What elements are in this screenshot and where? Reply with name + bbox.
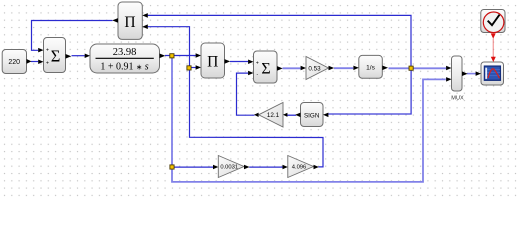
svg-text:Σ: Σ [261,60,270,77]
svg-text:+: + [46,48,49,54]
svg-text:220: 220 [8,59,20,66]
wire: sum S1 output to transfer function input [72,55,85,57]
wire: from gain 4.096 output up/left along x=189.5 to product P1 input 2 (with branch J2) [148,27,323,167]
transfer function block 23.98/(1+0.91*s) [85,44,166,73]
svg-text:Π: Π [124,14,135,31]
svg-text:+: + [256,60,259,66]
wire: feedback from junction J3 up and left to product P1 input 1 [148,15,411,68]
wire: junction J4 to gain 0.0031 input [172,166,213,168]
scope event input port [491,57,496,62]
gain block 0.0031 [213,156,250,178]
constant block 220 [2,50,31,74]
product block P2 [196,43,231,78]
wire: gain 0.53 output to integrator 1/s input [334,67,353,69]
wire: junction J1 down to junction J4, bottom run right, up to MUX input 2 [172,57,446,182]
svg-text:23.98: 23.98 [113,47,137,58]
svg-text:0.53: 0.53 [308,65,321,72]
wire: gain 0.0031 output to gain 4.096 input [249,166,283,168]
junction J1 [170,54,174,58]
wire: MUX output to scope input [467,73,477,75]
MUX block [446,56,468,101]
svg-text:1/s: 1/s [366,65,375,72]
integrator block 1/s [353,55,388,78]
wire: constant 220 to sum S1 input 2 [31,61,38,63]
wire: junction J2 to product P2 input 2 [190,67,196,69]
svg-text:Π: Π [207,53,218,70]
wire: product P2 output to sum S2 input 1 [230,61,248,63]
wire: junction J3 down then left to SIGN input [328,68,411,114]
clock block [481,10,505,39]
scope block [476,57,504,85]
svg-text:4.096: 4.096 [292,165,307,171]
gain block 0.53 [301,57,335,80]
junction J4 [170,165,174,169]
junction J3 [409,66,413,70]
svg-text:+: + [46,60,49,66]
wire: SIGN output to gain 12.1 input [287,114,296,116]
sum block S2 [248,51,283,83]
sum block S1 [38,38,71,73]
wire: transfer function output to product P2 input 1 (through junction J1) [165,55,196,57]
gain block 12.1 (mirrored) [254,103,287,128]
svg-text:12.1: 12.1 [267,112,280,119]
wire: gain 12.1 output left, up to sum S2 input 2 [237,73,255,115]
svg-text:0.0031: 0.0031 [220,165,238,171]
svg-text:SIGN: SIGN [304,112,320,119]
event link clock to scope [492,39,494,58]
product block P1 (mirrored) [112,2,148,39]
svg-text:Σ: Σ [51,47,61,66]
gain block 4.096 [283,156,319,178]
svg-text:1 + 0.91 ∗ s: 1 + 0.91 ∗ s [100,62,148,73]
wire: product P1 output left, down to sum S1 input 1 [32,21,113,51]
svg-text:MUX: MUX [451,95,464,101]
junction J2 [187,66,191,70]
SIGN block (mirrored) [295,103,328,127]
wire: sum S2 output to gain 0.53 input [283,67,301,69]
wire: integrator output to MUX input 1 (through junction J3) [389,67,447,69]
clock event output port [491,33,496,38]
